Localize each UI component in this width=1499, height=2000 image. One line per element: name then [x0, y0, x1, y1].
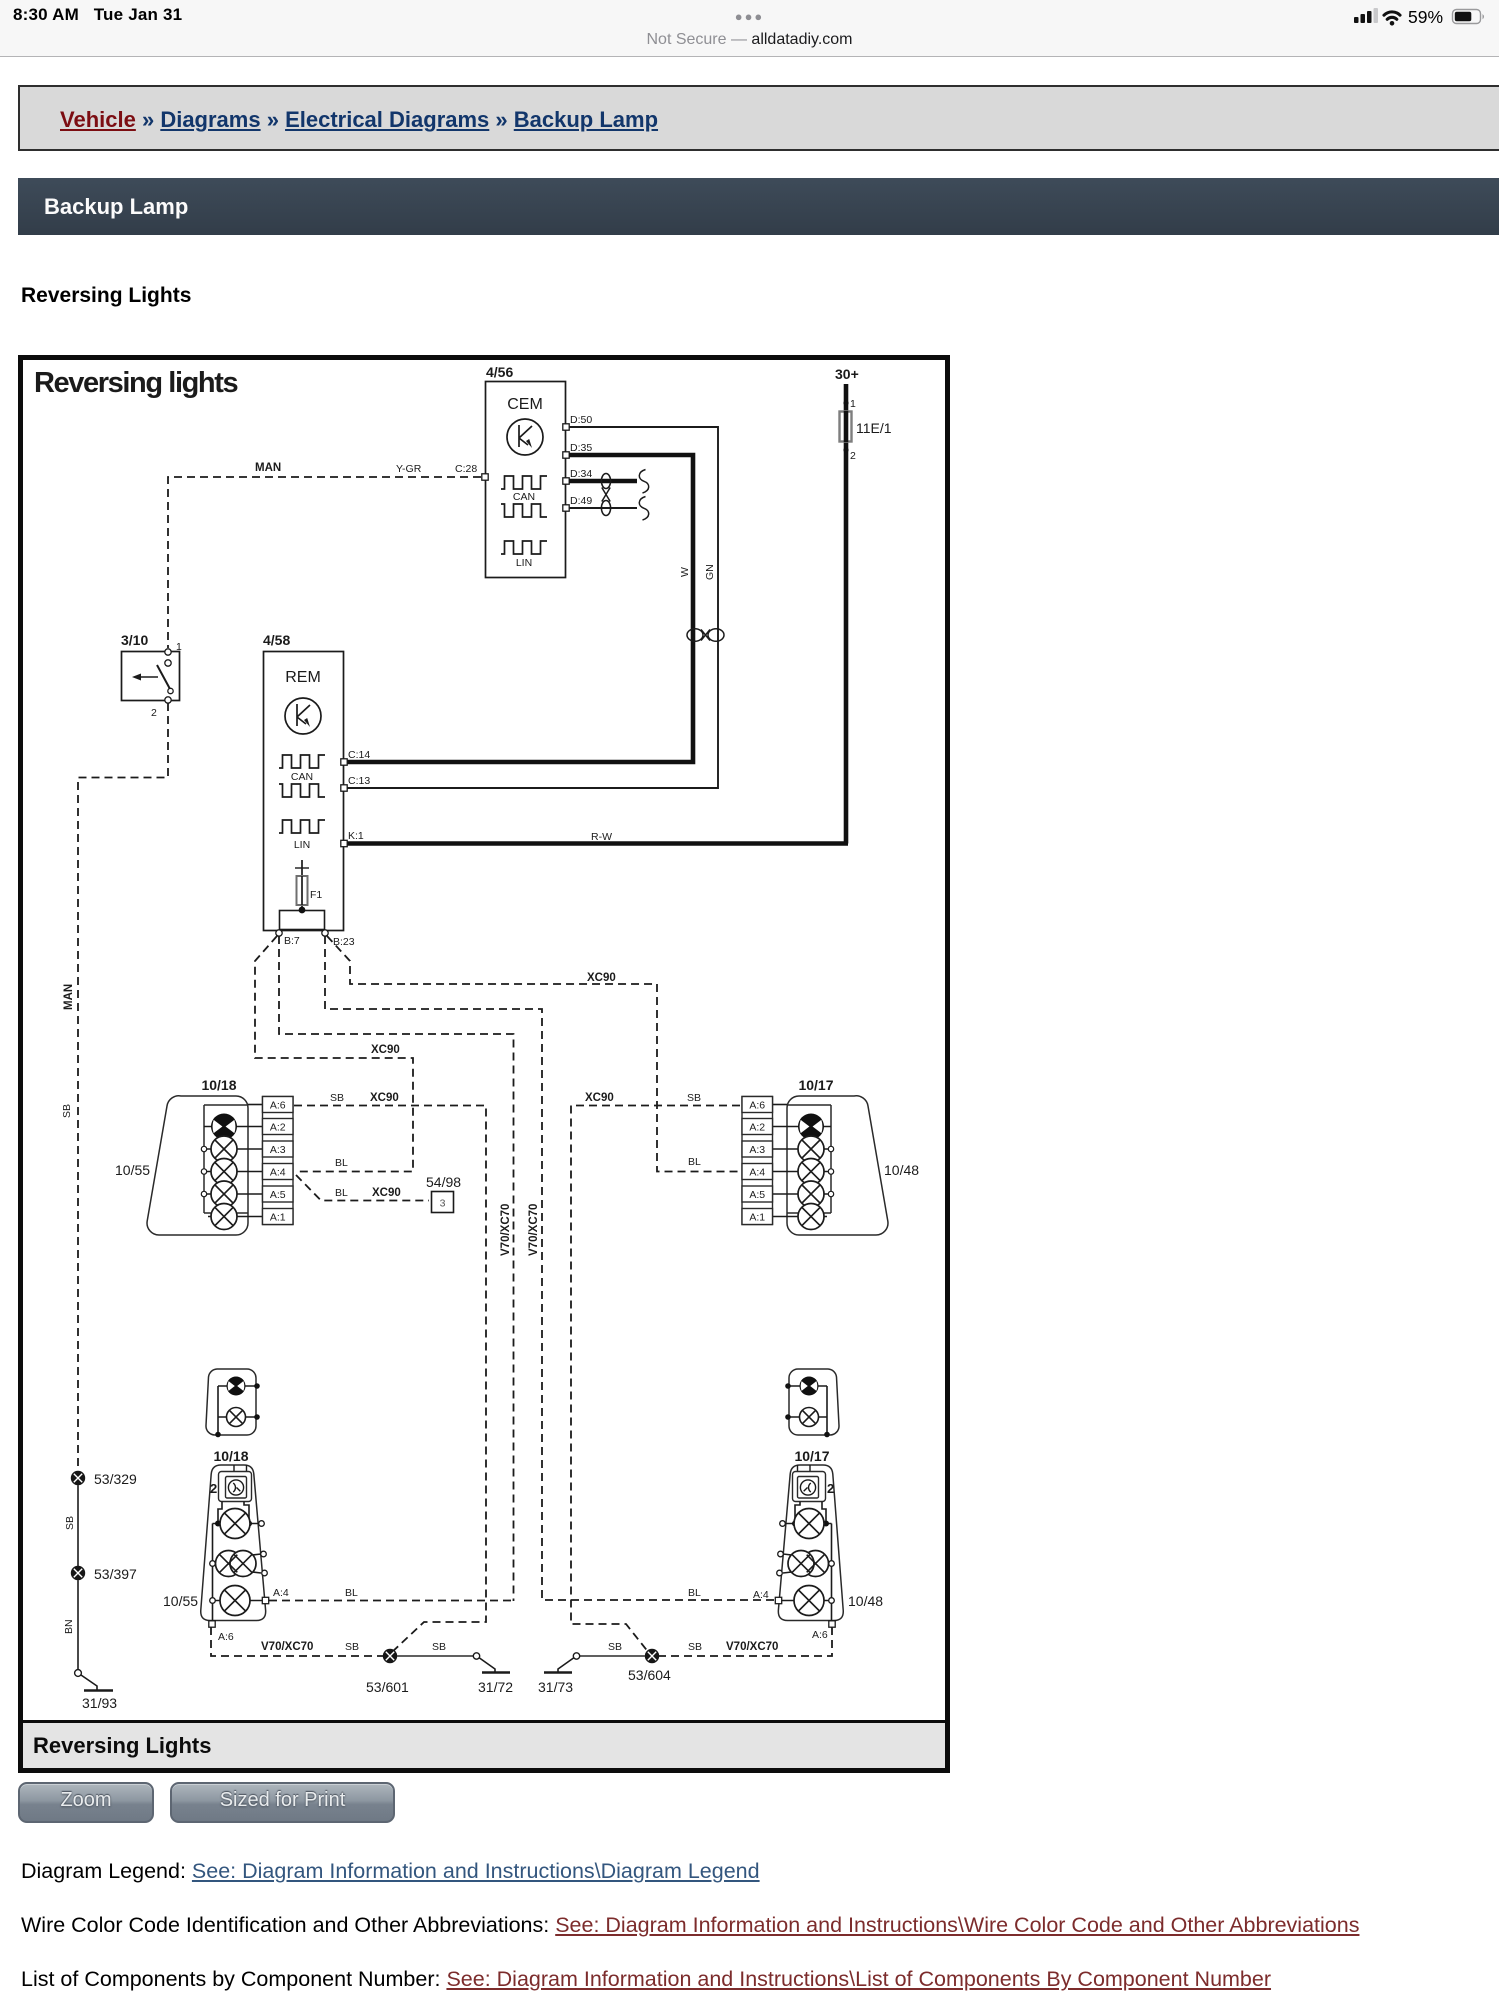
svg-text:2: 2	[827, 1481, 834, 1496]
svg-text:1: 1	[176, 641, 182, 653]
svg-text:54/98: 54/98	[426, 1174, 461, 1190]
svg-text:A:3: A:3	[749, 1144, 765, 1156]
wire CAN-L D:35 to REM C:14 (W) thick	[347, 455, 693, 762]
bulb lower	[210, 1598, 262, 1604]
control module CEM 4/56	[486, 364, 566, 578]
svg-text:SB: SB	[64, 1516, 76, 1530]
pin D:34	[563, 468, 593, 484]
bulb holder sub-unit	[793, 1465, 826, 1502]
svg-text:A:6: A:6	[812, 1629, 828, 1641]
svg-text:10/48: 10/48	[884, 1162, 919, 1178]
control module REM 4/58	[263, 632, 344, 931]
bulb wires to connector	[204, 1105, 262, 1217]
ground 31/73	[538, 1653, 580, 1695]
svg-text:A:6: A:6	[749, 1100, 765, 1112]
bulb	[798, 1181, 824, 1207]
svg-text:D:49: D:49	[570, 495, 592, 507]
svg-text:K:1: K:1	[348, 830, 364, 842]
svg-text:XC90: XC90	[587, 972, 616, 984]
wire R-W from fuse to REM K:1 thick	[347, 841, 848, 846]
svg-text:SB: SB	[688, 1641, 702, 1653]
svg-text:2: 2	[151, 707, 157, 719]
bulb	[798, 1204, 824, 1230]
ground 31/93	[75, 1670, 118, 1711]
lamp cluster 10/17	[787, 1077, 888, 1235]
bulb (position lamp, lit symbol)	[211, 1114, 237, 1140]
svg-text:A:4: A:4	[273, 1587, 289, 1599]
svg-text:XC90: XC90	[370, 1092, 399, 1104]
bulb	[798, 1159, 824, 1185]
svg-text:Y-GR: Y-GR	[396, 463, 422, 475]
svg-text:A:5: A:5	[749, 1189, 765, 1201]
pin B:7	[276, 930, 300, 947]
svg-text:53/601: 53/601	[366, 1679, 409, 1695]
pin A:6 lower right	[812, 1621, 835, 1641]
wire CAN-H D:50 to REM C:13 (GN)	[347, 427, 718, 788]
svg-text:BL: BL	[688, 1587, 701, 1599]
svg-text:C:13: C:13	[348, 775, 370, 787]
svg-text:BL: BL	[335, 1157, 348, 1169]
svg-text:A:1: A:1	[270, 1212, 286, 1224]
wire B:23 XC90 branch	[327, 936, 740, 1172]
svg-text:SB: SB	[432, 1641, 446, 1653]
svg-text:A:3: A:3	[270, 1144, 286, 1156]
pin C:28	[455, 463, 488, 480]
bulb	[800, 1408, 819, 1427]
svg-text:A:6: A:6	[218, 1631, 234, 1643]
svg-text:B:7: B:7	[284, 935, 300, 947]
splice 53/397	[71, 1566, 137, 1582]
svg-text:4/56: 4/56	[486, 364, 513, 380]
splice 53/601	[366, 1649, 409, 1695]
REM internal bus bar	[280, 907, 325, 930]
svg-text:D:34: D:34	[570, 468, 592, 480]
svg-text:SB: SB	[345, 1641, 359, 1653]
diagram outer frame	[21, 358, 948, 1771]
svg-text:A:2: A:2	[749, 1122, 765, 1134]
wire BN solid	[77, 1580, 79, 1670]
svg-text:SB: SB	[687, 1092, 701, 1104]
wire SB from right A:6 down to 53/604	[571, 1106, 740, 1654]
bulb lower	[782, 1598, 834, 1604]
svg-text:31/93: 31/93	[82, 1695, 117, 1711]
svg-text:V70/XC70: V70/XC70	[528, 1204, 540, 1256]
lamp unit upper right	[785, 1369, 839, 1437]
svg-text:SB: SB	[330, 1092, 344, 1104]
svg-text:MAN: MAN	[63, 984, 75, 1010]
switch S 3/10	[121, 632, 182, 719]
bulb reversing lamp	[794, 1509, 824, 1539]
wire SB to ground 31/73	[580, 1655, 645, 1657]
svg-text:A:6: A:6	[270, 1100, 286, 1112]
svg-text:2: 2	[210, 1481, 217, 1496]
svg-text:C:14: C:14	[348, 749, 370, 761]
svg-text:F1: F1	[310, 889, 322, 901]
svg-text:V70/XC70: V70/XC70	[261, 1641, 313, 1653]
bulb	[211, 1204, 237, 1230]
svg-text:XC90: XC90	[371, 1044, 400, 1056]
fuse F1 inside REM	[295, 860, 322, 910]
pin A:6 lower left	[209, 1621, 234, 1643]
svg-text:11E/1: 11E/1	[856, 420, 892, 436]
wire SB from A:6 to XC90 ground run	[294, 1106, 486, 1654]
twisted pair symbol W/GN vertical run	[687, 629, 724, 642]
in-line connector 54/98 pin 3	[426, 1174, 461, 1213]
svg-text:10/55: 10/55	[115, 1162, 150, 1178]
bulb node circles	[828, 1146, 833, 1196]
svg-text:W: W	[679, 567, 691, 577]
twisted pair symbol D:34/D:49	[601, 474, 610, 516]
svg-text:A:4: A:4	[270, 1167, 286, 1179]
svg-text:10/18: 10/18	[213, 1448, 248, 1464]
wire 30+ feed	[844, 384, 849, 844]
svg-text:A:4: A:4	[753, 1589, 769, 1601]
svg-text:XC90: XC90	[585, 1092, 614, 1104]
pin K:1	[341, 830, 364, 847]
bulb	[211, 1159, 237, 1185]
wire BL lower left	[269, 1600, 514, 1602]
diagram caption bar	[23, 1723, 945, 1768]
holder wires to reversing bulb	[213, 1502, 262, 1622]
pin 2	[843, 447, 856, 462]
svg-text:CAN: CAN	[513, 491, 535, 503]
pin C:13	[341, 775, 371, 791]
wire D:34 stub (twisted pair)	[569, 479, 637, 484]
pin D:49	[563, 495, 593, 511]
svg-text:BL: BL	[335, 1187, 348, 1199]
pin A:4 lower left	[262, 1587, 289, 1604]
pin B:23	[322, 930, 355, 948]
bulb	[211, 1136, 237, 1162]
svg-text:53/604: 53/604	[628, 1667, 671, 1683]
connector 10/55 pin column	[263, 1097, 294, 1225]
wire from switch pin2 down-left (MAN/SB run)	[78, 703, 168, 1478]
pin labels A:6 A:2 A:3 A:4 A:5 A:1	[749, 1100, 765, 1224]
wire BL from A:4 to in-line connector 54/98	[296, 1175, 429, 1201]
svg-text:SB: SB	[61, 1104, 73, 1118]
lamp cluster 10/17 lower	[778, 1448, 843, 1621]
svg-text:D:35: D:35	[570, 442, 592, 454]
svg-text:A:2: A:2	[270, 1122, 286, 1134]
lamp unit upper left	[206, 1369, 260, 1437]
svg-text:XC90: XC90	[372, 1187, 401, 1199]
ground 31/72	[473, 1653, 513, 1695]
wire SB to ground 31/72	[397, 1655, 473, 1657]
wire B:7 XC90 branch	[255, 936, 413, 1172]
svg-text:3/10: 3/10	[121, 632, 148, 648]
svg-text:C:28: C:28	[455, 463, 477, 475]
connector 10/48 pin column	[742, 1097, 773, 1225]
svg-text:CAN: CAN	[291, 771, 313, 783]
bulb (position lamp)	[227, 1377, 246, 1396]
bulb wires to connector	[773, 1105, 831, 1217]
wire SB from right A:6 to splice 53/604	[659, 1627, 832, 1656]
wire B:7 V70/XC70 branch	[279, 936, 514, 1601]
svg-text:A:1: A:1	[749, 1212, 765, 1224]
fuse 11E/1	[840, 411, 892, 442]
svg-text:10/18: 10/18	[201, 1077, 236, 1093]
wire SB from A:6 to splice 53/601	[211, 1627, 383, 1656]
bulb node circles	[201, 1146, 206, 1196]
svg-text:BL: BL	[345, 1587, 358, 1599]
splice 53/604	[628, 1649, 671, 1683]
svg-text:CEM: CEM	[507, 396, 543, 413]
svg-text:D:50: D:50	[570, 414, 592, 426]
svg-text:A:5: A:5	[270, 1189, 286, 1201]
bulb	[227, 1408, 246, 1427]
svg-text:Reversing lights: Reversing lights	[34, 367, 237, 399]
svg-text:GN: GN	[704, 564, 716, 580]
svg-text:31/73: 31/73	[538, 1679, 573, 1695]
svg-text:10/17: 10/17	[794, 1448, 829, 1464]
pin C:14	[341, 749, 371, 765]
bulb (position lamp)	[800, 1377, 819, 1396]
holder wires to reversing bulb	[783, 1502, 832, 1622]
wire MAN dashed	[168, 477, 481, 648]
svg-text:R-W: R-W	[591, 831, 612, 843]
svg-text:10/48: 10/48	[848, 1593, 883, 1609]
svg-text:30+: 30+	[835, 366, 859, 382]
svg-text:4/58: 4/58	[263, 632, 290, 648]
svg-text:10/55: 10/55	[163, 1593, 198, 1609]
svg-text:MAN: MAN	[255, 462, 281, 474]
wire SB solid	[77, 1485, 79, 1567]
lamp cluster 10/18 lower	[201, 1448, 266, 1621]
wire break symbols	[639, 470, 648, 521]
svg-text:31/72: 31/72	[478, 1679, 513, 1695]
bulb (position lamp, lit symbol)	[798, 1114, 824, 1140]
svg-text:3: 3	[440, 1198, 446, 1210]
svg-text:V70/XC70: V70/XC70	[500, 1204, 512, 1256]
bulb	[211, 1181, 237, 1207]
svg-text:LIN: LIN	[516, 557, 532, 569]
pin D:50	[563, 414, 593, 430]
bulb holder sub-unit	[219, 1465, 252, 1502]
lamp cluster 10/18	[147, 1077, 248, 1235]
svg-text:Reversing Lights: Reversing Lights	[33, 1733, 211, 1758]
svg-text:10/17: 10/17	[798, 1077, 833, 1093]
svg-text:REM: REM	[285, 669, 321, 686]
bulb tail/brake double filament	[777, 1551, 835, 1577]
pin D:35	[563, 442, 593, 458]
wire B:23 V70/XC70 branch	[325, 936, 775, 1600]
svg-text:53/397: 53/397	[94, 1566, 137, 1582]
svg-text:LIN: LIN	[294, 839, 310, 851]
pin 1	[843, 398, 856, 410]
svg-text:A:4: A:4	[749, 1167, 765, 1179]
svg-text:53/329: 53/329	[94, 1471, 137, 1487]
pin A:4 lower right	[775, 1597, 781, 1603]
bulb reversing lamp	[220, 1509, 250, 1539]
bulb	[798, 1136, 824, 1162]
wire D:49 stub (twisted pair)	[569, 507, 637, 509]
svg-text:V70/XC70: V70/XC70	[726, 1641, 778, 1653]
svg-text:BL: BL	[688, 1156, 701, 1168]
svg-text:2: 2	[850, 450, 856, 462]
pin labels A:6 A:2 A:3 A:4 A:5 A:1	[270, 1100, 286, 1224]
svg-text:SB: SB	[608, 1641, 622, 1653]
bulb tail/brake double filament	[210, 1551, 268, 1577]
splice 53/329	[71, 1471, 137, 1487]
svg-text:BN: BN	[63, 1619, 75, 1634]
svg-text:1: 1	[850, 398, 856, 410]
